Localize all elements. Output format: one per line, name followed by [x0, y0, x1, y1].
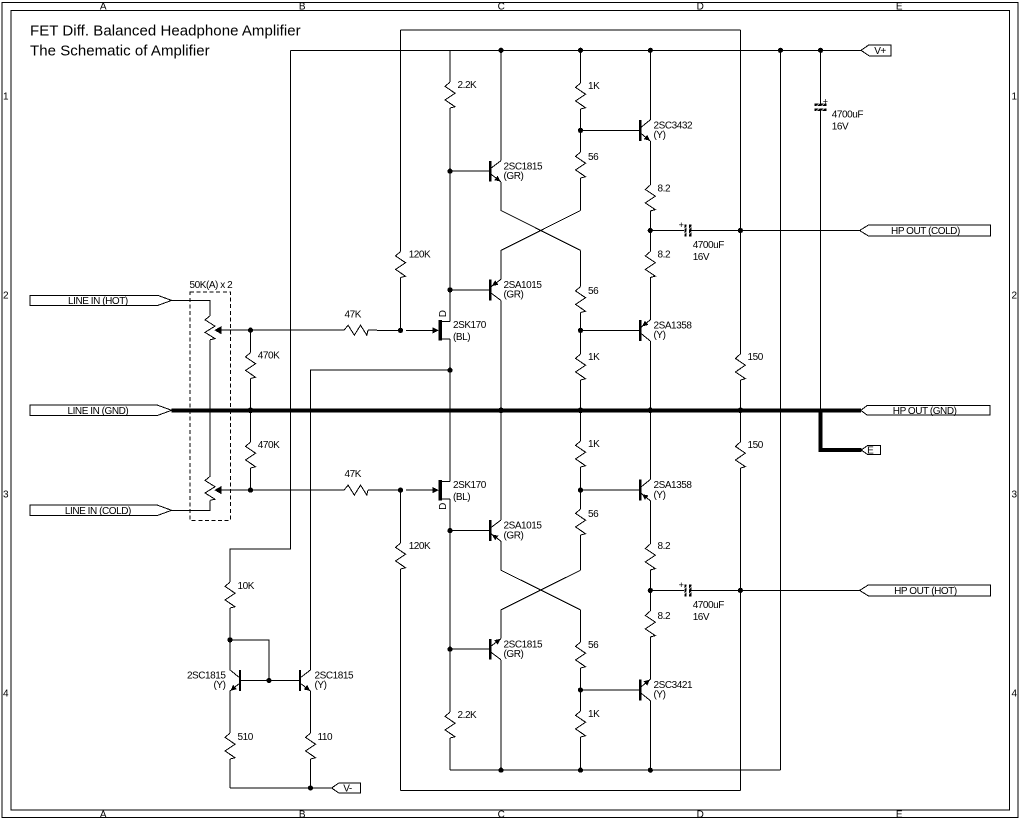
svg-text:(GR): (GR)	[504, 171, 524, 182]
junction HP OUT HOT node	[648, 588, 653, 593]
svg-text:4: 4	[1011, 689, 1017, 700]
wire Q9 base	[581, 689, 640, 691]
svg-text:8.2: 8.2	[658, 250, 671, 261]
label 120K lower	[409, 541, 431, 552]
svg-text:470K: 470K	[258, 351, 280, 362]
junction Q2 collector-GND	[498, 408, 504, 414]
label 56 upper-right	[588, 286, 599, 297]
svg-text:HP OUT (COLD): HP OUT (COLD)	[891, 226, 960, 237]
junction Q9 collector-rail	[648, 768, 653, 773]
wire Q2 collector	[500, 301, 502, 411]
svg-text:(Y): (Y)	[654, 490, 666, 501]
label Q3	[654, 121, 693, 142]
junction Q4 base node	[578, 328, 583, 333]
wire Q5 base	[450, 530, 489, 532]
wire bottom feedback	[401, 789, 741, 791]
potentiometer VR1a	[205, 316, 251, 340]
junction Q3 base node	[578, 128, 583, 133]
transistor Q9 2SC3421(Y)	[639, 679, 650, 700]
svg-text:56: 56	[588, 640, 599, 651]
wire feedback column upper	[739, 30, 741, 231]
wire V+ rail	[291, 49, 862, 51]
capacitor C2 4700uF	[679, 580, 692, 597]
label C2	[693, 600, 725, 623]
wire Q6 base	[450, 648, 489, 650]
svg-text:A: A	[100, 809, 107, 820]
wire V- rail	[230, 787, 332, 789]
junction 470K-GND	[248, 408, 254, 414]
svg-text:2.2K: 2.2K	[458, 80, 478, 91]
svg-text:(GR): (GR)	[504, 290, 524, 301]
junction hot-feedback	[738, 588, 743, 593]
svg-text:E: E	[896, 1, 903, 12]
resistor 56 upper-right	[576, 250, 586, 330]
resistor 1K lower-right	[576, 690, 586, 770]
svg-text:1K: 1K	[588, 81, 600, 92]
svg-text:LINE IN (GND): LINE IN (GND)	[67, 406, 128, 417]
svg-text:120K: 120K	[409, 250, 431, 261]
label Q4b	[654, 480, 693, 501]
svg-text:HP OUT (GND): HP OUT (GND)	[893, 406, 957, 417]
resistor 150 upper	[735, 231, 745, 411]
label 8.2 lower-1	[658, 541, 671, 552]
svg-text:D: D	[697, 809, 704, 820]
JFET 2SK170 lower	[406, 480, 450, 501]
svg-text:47K: 47K	[345, 309, 362, 320]
svg-text:FET Diff. Balanced Headphone A: FET Diff. Balanced Headphone Amplifier	[30, 23, 301, 40]
wire Q5 collector	[500, 410, 502, 520]
label D upper	[438, 310, 449, 317]
label 56 lower-left	[588, 509, 599, 520]
wire hot output right	[691, 589, 859, 591]
svg-text:8.2: 8.2	[658, 184, 671, 195]
svg-text:8.2: 8.2	[658, 611, 671, 622]
svg-text:110: 110	[318, 732, 333, 743]
label 1K lower-right	[588, 709, 600, 720]
label 1K lower-left	[588, 439, 600, 450]
wire cross to Q6 emitter	[501, 570, 581, 638]
label 47K upper	[345, 309, 362, 320]
junction 150-GND	[738, 408, 744, 414]
resistor 47K upper	[251, 325, 401, 335]
svg-text:+: +	[679, 220, 684, 230]
svg-text:LINE IN (COLD): LINE IN (COLD)	[65, 506, 131, 517]
junction Q9 base node	[578, 687, 583, 692]
label C1	[693, 240, 725, 263]
label 56 lower-right	[588, 640, 599, 651]
wire Q7 collector	[229, 640, 231, 670]
label 8.2 lower-2	[658, 611, 671, 622]
junction rail-tie	[778, 48, 783, 53]
svg-text:1K: 1K	[588, 352, 600, 363]
svg-text:1: 1	[1011, 92, 1017, 103]
junction Q5 base node	[447, 528, 452, 533]
wire top feedback	[401, 29, 741, 31]
wire Q4b base	[581, 489, 640, 491]
junction Q5 collector-GND	[498, 408, 504, 414]
label 2.2K lower	[458, 710, 478, 721]
svg-text:3: 3	[1011, 490, 1017, 501]
wire bottom rail	[450, 769, 780, 771]
resistor 56 upper-left	[576, 130, 586, 210]
wire Q1 collector	[500, 50, 502, 160]
supply flag V-	[332, 783, 361, 795]
resistor 8.2 lower-1	[645, 544, 655, 590]
junction wiper-470K bottom	[248, 488, 253, 493]
junction gate node A	[398, 328, 403, 333]
junction 1K-GND lower	[578, 408, 584, 414]
junction Q6 collector-rail	[498, 768, 503, 773]
transistor Q6 2SC1815(GR)	[489, 639, 501, 660]
svg-text:56: 56	[588, 286, 599, 297]
label 10K	[238, 581, 255, 592]
junction 1K-rail	[578, 768, 583, 773]
resistor 120K lower	[396, 490, 406, 790]
wire Q3 emitter	[649, 141, 651, 185]
label Q7	[187, 671, 226, 692]
label Q9	[654, 680, 693, 701]
svg-text:470K: 470K	[258, 440, 280, 451]
label 47K lower	[345, 469, 362, 480]
JFET 2SK170 upper	[406, 320, 450, 341]
transistor Q4b 2SA1358(Y)	[639, 480, 650, 501]
label 510	[238, 732, 254, 743]
wire feedback column lower	[739, 590, 741, 790]
svg-text:D: D	[697, 1, 704, 12]
junction Q4b base node	[578, 488, 583, 493]
input flag LINE IN (COLD)	[30, 505, 171, 517]
potentiometer VR1b	[205, 476, 251, 500]
label 1K upper-left	[588, 81, 600, 92]
wire cold output left	[650, 230, 684, 232]
junction tie-base	[266, 678, 271, 683]
wire drain lower	[449, 499, 451, 649]
svg-text:C: C	[498, 1, 505, 12]
transistor Q5 2SA1015(GR)	[489, 520, 501, 541]
resistor 8.2 upper-2	[645, 231, 655, 320]
transistor Q2 2SA1015(GR)	[489, 279, 501, 300]
label 150 lower	[748, 440, 764, 451]
output flag HP OUT (HOT)	[860, 585, 991, 597]
svg-text:HP OUT (HOT): HP OUT (HOT)	[894, 586, 957, 597]
transistor Q3 2SC3432(Y)	[639, 120, 650, 141]
svg-text:16V: 16V	[832, 122, 849, 133]
label Q4	[654, 321, 693, 342]
svg-text:+: +	[679, 580, 684, 590]
svg-text:(BL): (BL)	[453, 332, 470, 343]
svg-text:10K: 10K	[238, 581, 255, 592]
wire cross to Q2 emitter	[501, 211, 581, 280]
resistor 2.2K upper	[445, 50, 455, 171]
wire V+ to bias	[230, 50, 291, 582]
junction Q6 base node	[447, 647, 452, 652]
wire hot output left	[650, 589, 684, 591]
svg-text:D: D	[438, 310, 449, 317]
junction Q4b collector-GND	[648, 408, 654, 414]
svg-text:+: +	[823, 96, 828, 106]
wire Q4b collector	[649, 410, 651, 479]
junction cold-feedback	[738, 228, 743, 233]
svg-text:4700uF: 4700uF	[693, 240, 725, 251]
label 150 upper	[748, 352, 764, 363]
svg-text:16V: 16V	[693, 612, 710, 623]
transistor Q7 2SC1815(Y)	[230, 670, 241, 691]
wire source tie	[449, 339, 451, 481]
resistor 1K lower-left	[576, 410, 586, 490]
svg-text:(GR): (GR)	[504, 530, 524, 541]
junction 10K-Q7	[227, 637, 232, 642]
junction Q4 collector-GND	[648, 408, 654, 414]
svg-text:2SK170: 2SK170	[453, 320, 487, 331]
wire Q4 collector	[649, 341, 651, 410]
wire Q1 base	[450, 170, 489, 172]
wire cold output right	[691, 230, 859, 232]
wire Q4 base	[581, 329, 640, 331]
svg-text:4700uF: 4700uF	[832, 110, 864, 121]
dashed gang enclosure	[190, 292, 231, 520]
wire Q3 collector	[649, 50, 651, 120]
resistor 120K upper	[396, 30, 406, 330]
junction rail-1K	[578, 48, 583, 53]
resistor 470K upper	[246, 330, 256, 410]
wire pot1 lower end	[209, 340, 211, 477]
svg-text:V+: V+	[874, 46, 886, 57]
wire Q2 base	[450, 289, 489, 291]
junction Q1 base node	[447, 169, 452, 174]
label 56 upper-left	[588, 152, 599, 163]
svg-text:(Y): (Y)	[654, 330, 666, 341]
wire Q6 collector	[500, 660, 502, 770]
label 2SK170 lower	[453, 480, 487, 503]
label 120K upper	[409, 250, 431, 261]
output flag HP OUT (GND)	[861, 405, 990, 417]
label Q6	[504, 639, 543, 660]
wire E branch (thick)	[821, 408, 862, 450]
wire hot input to pot	[172, 300, 210, 315]
label 8.2 upper-1	[658, 184, 671, 195]
junction Q2 base node	[447, 287, 452, 292]
resistor 8.2 upper-1	[645, 185, 655, 231]
junction 1K-GND upper	[578, 408, 584, 414]
svg-text:1K: 1K	[588, 439, 600, 450]
svg-text:B: B	[299, 809, 306, 820]
svg-text:3: 3	[3, 490, 9, 501]
svg-text:50K(A) x 2: 50K(A) x 2	[190, 280, 234, 291]
junction rail-Q1 chain	[498, 48, 503, 53]
svg-text:16V: 16V	[693, 252, 710, 263]
output flag HP OUT (COLD)	[860, 225, 991, 237]
svg-text:B: B	[299, 1, 306, 12]
wire Q1 emitter to cross	[501, 182, 581, 251]
junction rail-Q3 collector	[648, 48, 653, 53]
transistor Q4 2SA1358(Y)	[639, 320, 650, 341]
input flag LINE IN (GND)	[30, 405, 171, 417]
label C3	[832, 110, 864, 133]
junction rail-reservoir cap	[818, 48, 823, 53]
resistor 47K lower	[251, 485, 401, 495]
wire Q9 collector	[649, 701, 651, 771]
svg-text:C: C	[498, 809, 505, 820]
wire base tie	[230, 640, 269, 681]
resistor 150 lower	[735, 410, 745, 590]
resistor 56 lower-right	[576, 610, 586, 690]
svg-text:56: 56	[588, 509, 599, 520]
resistor 1K upper-right	[576, 330, 586, 410]
svg-text:2.2K: 2.2K	[458, 710, 478, 721]
label Q5	[504, 521, 543, 542]
label D lower	[438, 503, 449, 510]
capacitor C1 4700uF	[679, 220, 692, 237]
transistor Q1 2SC1815(GR)	[489, 161, 501, 182]
wire GND bus (thick)	[172, 408, 861, 412]
junction 110-V-	[308, 785, 313, 790]
resistor 10K	[225, 582, 235, 640]
resistor 8.2 lower-2	[645, 590, 655, 679]
svg-text:(GR): (GR)	[504, 649, 524, 660]
resistor 110	[306, 691, 316, 788]
input flag LINE IN (HOT)	[30, 295, 171, 307]
svg-text:150: 150	[748, 440, 764, 451]
wire Q3 base	[581, 129, 640, 131]
label 2SK170 upper	[453, 320, 487, 343]
wire drain upper	[449, 171, 451, 322]
wire rail tie column	[779, 50, 781, 770]
terminal flag E	[861, 446, 880, 457]
svg-text:8.2: 8.2	[658, 541, 671, 552]
transistor Q8 2SC1815(Y)	[299, 670, 311, 691]
svg-text:1: 1	[3, 92, 9, 103]
svg-text:(Y): (Y)	[214, 680, 226, 691]
junction gate node B	[398, 488, 403, 493]
svg-text:2SK170: 2SK170	[453, 480, 487, 491]
label Q1	[504, 161, 543, 182]
svg-text:1K: 1K	[588, 709, 600, 720]
svg-text:(Y): (Y)	[654, 690, 666, 701]
svg-text:E: E	[867, 446, 874, 457]
label 8.2 upper-2	[658, 250, 671, 261]
junction source node	[447, 368, 452, 373]
wire pot2 to cold input	[172, 500, 210, 510]
label 470K lower	[258, 440, 280, 451]
svg-text:4: 4	[3, 689, 9, 700]
svg-text:47K: 47K	[345, 469, 362, 480]
svg-text:A: A	[100, 1, 107, 12]
svg-text:V-: V-	[343, 784, 352, 795]
resistor 2.2K lower	[445, 649, 455, 770]
wire Q5 emitter to cross	[501, 541, 581, 610]
svg-text:2: 2	[1011, 291, 1017, 302]
junction HP OUT COLD node	[648, 228, 653, 233]
wire Q7-Q8 base	[241, 680, 299, 682]
svg-text:510: 510	[238, 732, 254, 743]
svg-text:2: 2	[3, 291, 9, 302]
label 470K upper	[258, 351, 280, 362]
label 1K upper-right	[588, 352, 600, 363]
resistor 470K lower	[246, 410, 256, 490]
svg-text:LINE IN (HOT): LINE IN (HOT)	[68, 296, 128, 307]
svg-text:D: D	[438, 503, 449, 510]
svg-text:150: 150	[748, 352, 764, 363]
svg-text:(BL): (BL)	[453, 492, 470, 503]
svg-text:The Schematic of Amplifier: The Schematic of Amplifier	[30, 43, 210, 60]
resistor 56 lower-left	[576, 490, 586, 570]
resistor 1K upper-left	[576, 50, 586, 130]
label Q2	[504, 280, 543, 301]
junction wiper-470K top	[248, 328, 253, 333]
svg-text:(Y): (Y)	[654, 130, 666, 141]
svg-text:56: 56	[588, 152, 599, 163]
label 50K(A) x 2	[190, 280, 234, 291]
label Q8	[315, 671, 354, 692]
wire Q4b emitter	[649, 501, 651, 544]
svg-text:120K: 120K	[409, 541, 431, 552]
svg-text:(Y): (Y)	[315, 680, 327, 691]
wire source to current sink	[311, 370, 451, 670]
svg-text:4700uF: 4700uF	[693, 600, 725, 611]
label 2.2K upper	[458, 80, 478, 91]
resistor 510	[225, 691, 235, 788]
svg-text:E: E	[896, 809, 903, 820]
V+ flag	[861, 45, 891, 57]
label 110	[318, 732, 333, 743]
capacitor C3 4700uF reservoir	[815, 50, 828, 408]
